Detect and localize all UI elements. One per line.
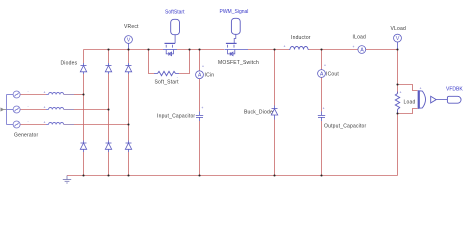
generator source G3 bbox=[13, 121, 20, 128]
diode D1 (bridge top leg1) bbox=[80, 63, 86, 74]
voltmeter VRect bbox=[125, 36, 133, 50]
node: rail-softstart-right bbox=[188, 48, 190, 50]
wire: load sense bottom tap bbox=[398, 109, 418, 114]
diode Buck_Diode bbox=[271, 106, 277, 120]
generator source G2 bbox=[13, 106, 20, 113]
wire: bridge leg 1 vertical bbox=[83, 50, 85, 176]
wire: generator neutral bus bbox=[7, 95, 14, 125]
svg-text:-: - bbox=[28, 120, 29, 124]
diode D4 (bridge bottom leg1) bbox=[80, 141, 86, 153]
wire: top DC rail segment 1 bbox=[84, 49, 164, 51]
wire: output capacitor branch bbox=[321, 50, 323, 176]
resistor Load bbox=[395, 92, 399, 114]
svg-text:Load: Load bbox=[404, 99, 416, 105]
node: rail-leg3/VRect bbox=[127, 48, 129, 50]
node: bottom-buck-diode bbox=[273, 174, 275, 176]
wire: top DC rail segment 3 bbox=[248, 49, 289, 51]
svg-text:+: + bbox=[323, 107, 325, 111]
wire: phase C line bbox=[20, 124, 129, 126]
MOSFET Soft_Start switch bbox=[163, 43, 177, 55]
inductor Lb (phase B) bbox=[46, 108, 74, 110]
svg-text:V: V bbox=[127, 38, 131, 44]
svg-text:+: + bbox=[324, 64, 326, 68]
svg-text:Input_Capacitor: Input_Capacitor bbox=[157, 113, 195, 119]
ground symbol bbox=[63, 176, 71, 184]
inductor Lc (phase C) bbox=[46, 123, 74, 125]
wire: phase B line bbox=[20, 109, 109, 111]
svg-text:V: V bbox=[396, 36, 400, 42]
capacitor Output_Capacitor bbox=[318, 112, 325, 122]
ammeter ICin bbox=[196, 71, 204, 79]
svg-text:VRect: VRect bbox=[124, 24, 139, 30]
svg-text:MOSFET_Switch: MOSFET_Switch bbox=[218, 60, 259, 66]
diode D3 (bridge top leg3) bbox=[125, 63, 131, 74]
voltmeter VLoad bbox=[394, 34, 402, 49]
voltage sensor (load feedback) bbox=[418, 90, 425, 109]
svg-text:Soft_Start: Soft_Start bbox=[155, 79, 180, 85]
svg-text:Buck_Diode: Buck_Diode bbox=[244, 109, 273, 115]
svg-text:ICout: ICout bbox=[326, 72, 339, 78]
svg-text:+: + bbox=[44, 91, 46, 95]
MOSFET MOSFET_Switch bbox=[224, 43, 248, 55]
node: rail-VLoad corner bbox=[396, 48, 398, 50]
capacitor Input_Capacitor bbox=[196, 112, 203, 122]
wire: right vertical load branch upper bbox=[397, 50, 399, 94]
node: rail-input-cap bbox=[198, 48, 200, 50]
diode D6 (bridge bottom leg3) bbox=[125, 141, 131, 153]
svg-text:+: + bbox=[44, 121, 46, 125]
svg-text:-: - bbox=[28, 105, 29, 109]
goto tag VFDBK (pill) bbox=[447, 96, 461, 103]
svg-text:ICin: ICin bbox=[205, 73, 215, 79]
node: bottom-leg2 bbox=[107, 174, 109, 176]
svg-text:Inductor: Inductor bbox=[291, 35, 311, 41]
port: left input port arrow bbox=[1, 108, 7, 112]
wire: top DC rail segment 5 bbox=[366, 49, 398, 51]
wire: input capacitor branch bbox=[199, 50, 201, 176]
wire: phase A line bbox=[20, 94, 84, 96]
svg-text:-: - bbox=[28, 90, 29, 94]
node: phase A tap bbox=[82, 93, 84, 95]
wire: soft-start bypass branch bbox=[149, 50, 190, 74]
svg-text:VLoad: VLoad bbox=[391, 26, 406, 32]
svg-text:+: + bbox=[420, 87, 422, 91]
wire: bridge leg 2 vertical bbox=[108, 50, 110, 176]
goto tag PWM_Signal (pill) bbox=[231, 18, 240, 43]
svg-text:+: + bbox=[353, 45, 355, 49]
node: phase C tap bbox=[127, 123, 129, 125]
wire: top DC rail segment 4 bbox=[309, 49, 358, 51]
node: phase B tap bbox=[107, 108, 109, 110]
generator source G1 bbox=[13, 91, 20, 98]
svg-text:-: - bbox=[177, 75, 178, 79]
wire: bridge leg 3 vertical bbox=[128, 50, 130, 176]
wire: right vertical load branch lower bbox=[397, 110, 399, 176]
node: rail-output-cap bbox=[320, 48, 322, 50]
node: bottom-leg3 bbox=[127, 174, 129, 176]
node: rail-buck-diode bbox=[273, 48, 275, 50]
wire: sensor output signal bbox=[436, 99, 447, 101]
ammeter ILoad bbox=[358, 46, 366, 54]
inductor Inductor (buck) bbox=[289, 47, 309, 50]
svg-text:+: + bbox=[201, 106, 203, 110]
svg-text:Diodes: Diodes bbox=[61, 60, 78, 66]
node: bottom-leg1 bbox=[82, 174, 84, 176]
node: bottom-output-cap bbox=[320, 174, 322, 176]
svg-text:VFDBK: VFDBK bbox=[446, 86, 463, 92]
wire: bottom return rail bbox=[67, 175, 398, 177]
node: bottom-input-cap bbox=[198, 174, 200, 176]
svg-text:+: + bbox=[400, 91, 402, 95]
svg-text:SoftStart: SoftStart bbox=[165, 10, 185, 16]
resistor Soft_Start bbox=[154, 71, 179, 75]
node: rail-softstart-left bbox=[147, 48, 149, 50]
diode D5 (bridge bottom leg2) bbox=[105, 141, 111, 153]
wire: load sense top tap bbox=[398, 85, 418, 91]
svg-text:ILoad: ILoad bbox=[353, 35, 367, 41]
diode D2 (bridge top leg2) bbox=[105, 63, 111, 74]
svg-text:+: + bbox=[44, 106, 46, 110]
polarity marks bbox=[28, 45, 422, 125]
wire: top DC rail segment 2 bbox=[177, 49, 224, 51]
svg-text:PWM_Signal: PWM_Signal bbox=[220, 9, 249, 15]
ammeter ICout bbox=[318, 70, 326, 78]
signal arrow triangle bbox=[431, 96, 437, 103]
svg-text:+: + bbox=[284, 45, 286, 49]
node: load top bbox=[396, 83, 398, 85]
svg-text:Generator: Generator bbox=[14, 133, 38, 139]
goto tag SoftStart (pill) bbox=[171, 19, 180, 43]
svg-text:Output_Capacitor: Output_Capacitor bbox=[324, 124, 367, 130]
svg-text:+: + bbox=[202, 65, 204, 69]
node: rail-leg2 bbox=[107, 48, 109, 50]
inductor La (phase A) bbox=[46, 93, 74, 95]
node: load bottom bbox=[396, 112, 398, 114]
wire: buck diode branch bbox=[274, 50, 276, 176]
